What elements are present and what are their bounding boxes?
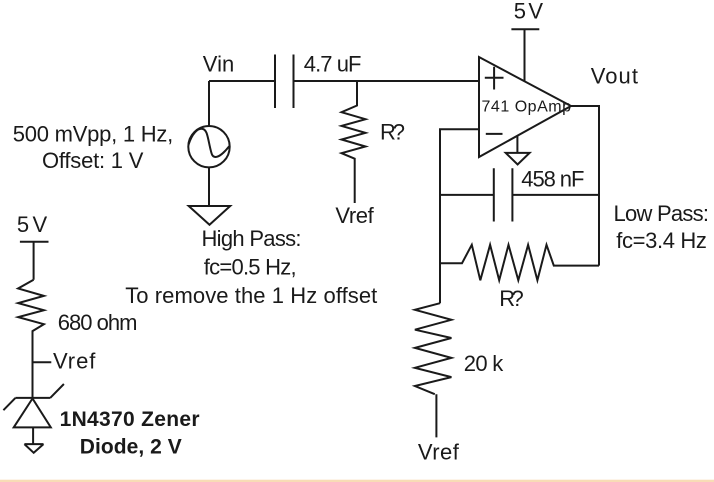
svg-text:Vref: Vref — [335, 203, 374, 228]
svg-text:5 V: 5 V — [17, 212, 48, 237]
svg-text:Offset: 1 V: Offset: 1 V — [42, 148, 144, 173]
svg-text:R?: R? — [499, 286, 524, 311]
svg-text:R?: R? — [380, 120, 405, 145]
svg-text:20 k: 20 k — [464, 351, 505, 376]
svg-text:Vref: Vref — [418, 439, 460, 464]
svg-text:fc=3.4 Hz: fc=3.4 Hz — [616, 228, 707, 253]
svg-text:Vout: Vout — [591, 64, 638, 89]
svg-text:458 nF: 458 nF — [521, 167, 584, 192]
svg-text:4.7 uF: 4.7 uF — [304, 52, 362, 77]
svg-text:680 ohm: 680 ohm — [58, 310, 138, 335]
svg-text:741 OpAmp: 741 OpAmp — [482, 99, 572, 116]
svg-text:Vin: Vin — [203, 52, 235, 77]
svg-text:500 mVpp, 1 Hz,: 500 mVpp, 1 Hz, — [13, 121, 174, 146]
svg-text:To remove the 1 Hz offset: To remove the 1 Hz offset — [125, 283, 377, 308]
svg-text:1N4370 Zener: 1N4370 Zener — [60, 408, 200, 431]
svg-text:Low Pass:: Low Pass: — [614, 201, 710, 226]
svg-text:High Pass:: High Pass: — [202, 226, 302, 251]
svg-text:fc=0.5 Hz,: fc=0.5 Hz, — [204, 255, 297, 280]
svg-text:5 V: 5 V — [514, 0, 544, 24]
svg-text:Vref: Vref — [53, 349, 96, 374]
svg-text:Diode, 2 V: Diode, 2 V — [80, 436, 182, 459]
